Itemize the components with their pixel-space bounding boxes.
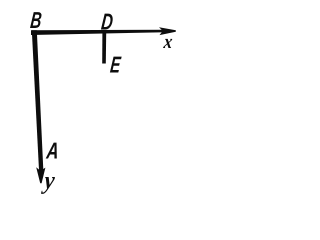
svg-text:E: E [109,52,122,78]
node label x [162,31,174,53]
arrowhead x-axis [159,27,176,35]
wire horizontal x-axis shaft [31,30,166,35]
svg-text:A: A [45,138,60,164]
wire tick at D down to E [102,33,106,64]
node label E [109,52,122,78]
arrowhead y-axis [36,167,45,183]
node label D [100,8,114,34]
svg-text:B: B [29,7,43,33]
node label B [29,7,43,33]
node label y [40,168,56,195]
node label A [45,138,60,164]
wire vertical y-axis shaft [32,30,44,174]
